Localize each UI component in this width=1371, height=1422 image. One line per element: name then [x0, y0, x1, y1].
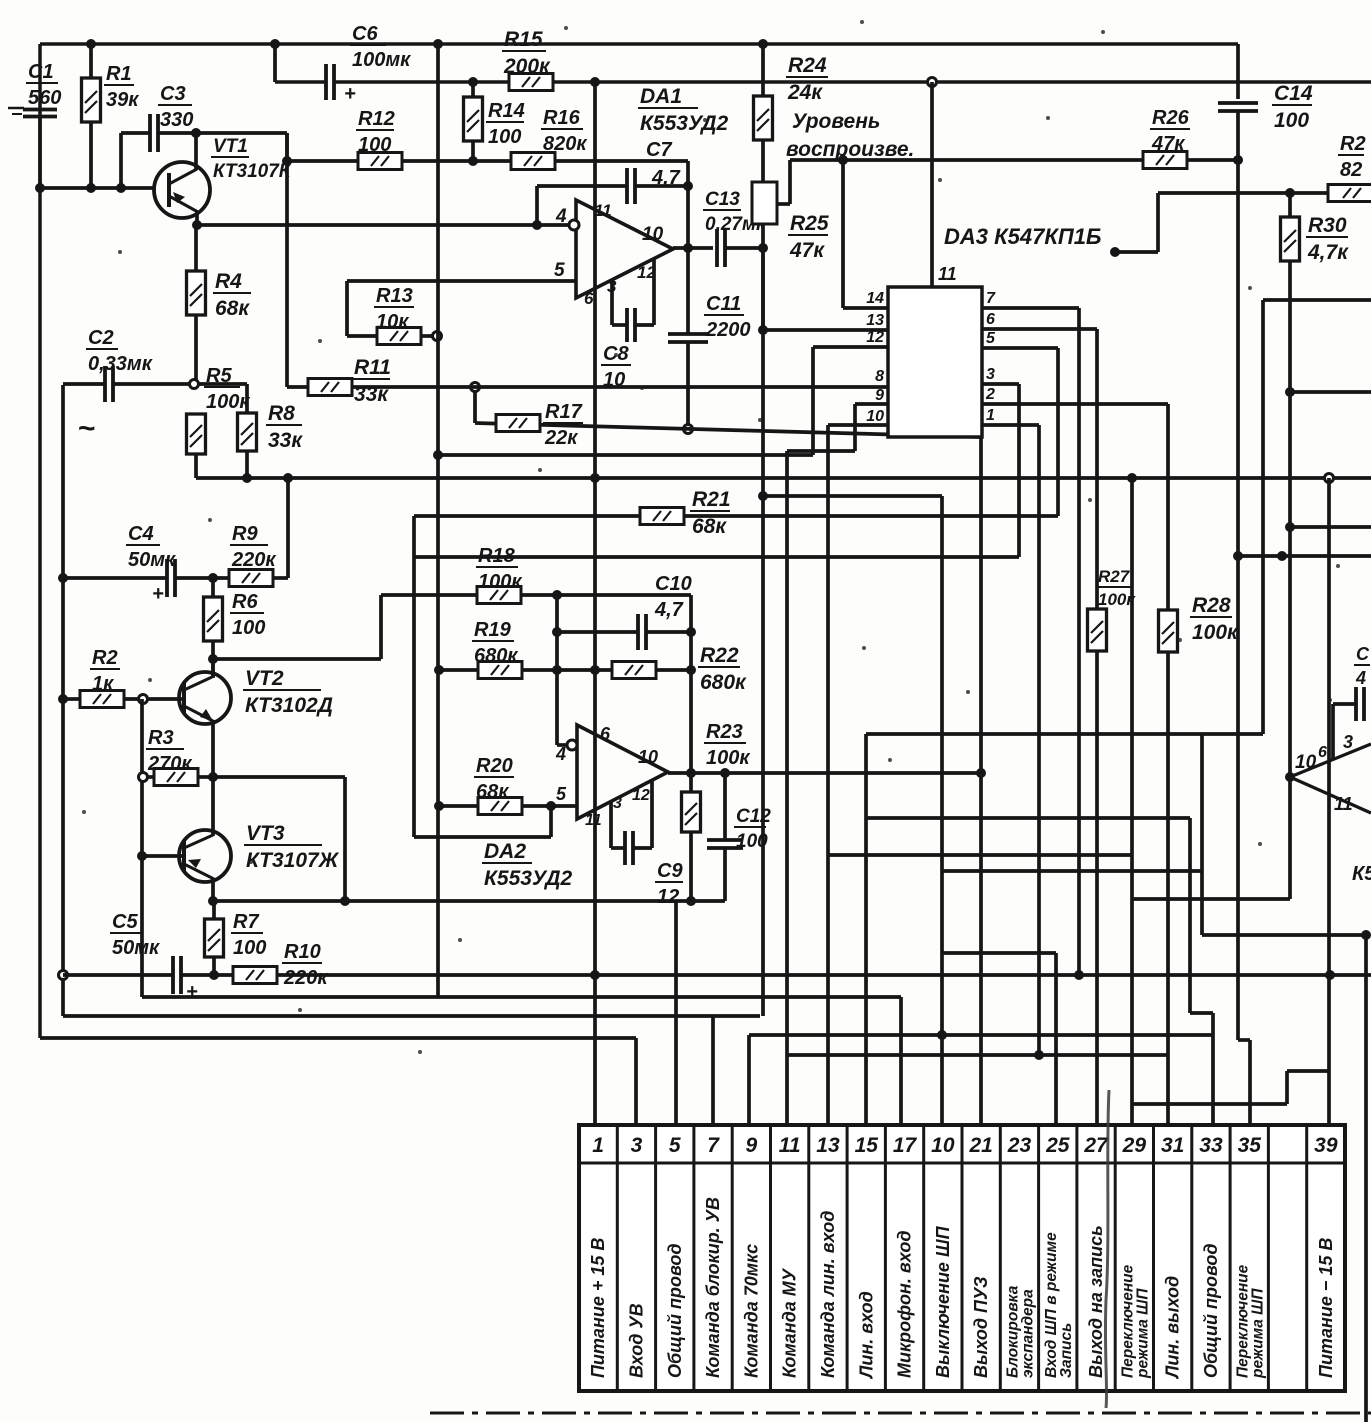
node junction R14 top [468, 77, 478, 87]
wire y659 link [213, 657, 381, 661]
wire x1056 col25 drop [1054, 953, 1058, 1125]
pin 12 label DA1 [637, 263, 656, 282]
label R8 33к [266, 402, 303, 452]
svg-text:КТ3107К: КТ3107К [213, 161, 292, 182]
label C7 4,7 [643, 139, 681, 189]
wire x1202 drop [1200, 734, 1204, 935]
svg-text:100к: 100к [478, 571, 522, 593]
svg-text:11: 11 [1334, 794, 1353, 814]
pin 10 label DA2 [638, 747, 658, 767]
capacitor C1 [8, 108, 57, 117]
svg-text:5: 5 [986, 330, 996, 347]
label R6 100 [230, 591, 265, 639]
svg-text:4: 4 [555, 744, 566, 764]
wire x942 bus [940, 496, 944, 1125]
capacitor C11 [668, 248, 708, 429]
node y556 mid [1277, 551, 1287, 561]
pin 5 label DA1 [554, 260, 565, 281]
svg-text:11: 11 [938, 264, 957, 284]
pin 3 label DA4 [1343, 732, 1353, 752]
wire y557 line [414, 555, 1019, 559]
node y670 main bus [590, 665, 600, 675]
label C2 0,33мк [86, 327, 153, 375]
pin 7 label DA3 [986, 290, 996, 307]
resistor R6 [204, 578, 223, 676]
svg-text:100к: 100к [706, 747, 750, 769]
svg-text:R22: R22 [700, 644, 739, 667]
wire R5/R8 bottom line y478 [196, 476, 1371, 480]
svg-text:5: 5 [669, 1134, 681, 1157]
resistor R27 [1088, 609, 1107, 1125]
label VT2 [243, 667, 333, 717]
wire R9 riser [286, 478, 290, 578]
svg-text:экспандера: экспандера [1019, 1289, 1036, 1378]
svg-text:R4: R4 [215, 270, 242, 293]
node C5 left (circle) [59, 971, 68, 980]
svg-text:3: 3 [613, 795, 622, 812]
svg-text:+: + [152, 583, 164, 605]
svg-text:+: + [186, 981, 198, 1003]
wire top +supply rail [40, 42, 1238, 46]
wire pin9 stub [787, 404, 888, 451]
svg-text:10: 10 [931, 1134, 955, 1157]
wire R17 riser to R11 line [473, 387, 477, 423]
svg-text:29: 29 [1122, 1134, 1147, 1157]
pin 8 label DA3 [875, 368, 884, 385]
svg-text:100к: 100к [206, 391, 250, 413]
node R2 right (circle) [139, 695, 148, 704]
pin 10 label DA1 [642, 224, 664, 245]
svg-text:17: 17 [893, 1134, 918, 1157]
wire x866 col15 bus [864, 734, 868, 1125]
wire C1 to base node [38, 117, 42, 188]
label R18 100к [476, 545, 522, 593]
label R15 200к [502, 28, 551, 78]
pin 10 label DA4 [1295, 752, 1317, 773]
node VT3 base node [137, 851, 147, 861]
resistor R10 [233, 967, 277, 984]
node C7 line junction [683, 181, 693, 191]
label C12 100 [734, 806, 771, 852]
svg-text:12: 12 [632, 787, 650, 804]
svg-text:47к: 47к [1151, 133, 1185, 155]
pin 5 label DA2 [556, 784, 567, 804]
resistor R4 [187, 225, 206, 380]
wire pin3 drop [982, 384, 1019, 557]
label уровень воспроизв. [786, 110, 914, 161]
svg-text:9: 9 [746, 1134, 758, 1157]
wire VT3 base lead [142, 854, 184, 858]
wire pin7 drop [982, 308, 1079, 975]
svg-text:39к: 39к [106, 89, 139, 111]
svg-text:50мк: 50мк [128, 549, 176, 571]
resistor R20 [478, 798, 522, 815]
wire VT2 base lead [147, 697, 184, 701]
svg-text:47к: 47к [789, 239, 825, 262]
svg-text:Команда МУ: Команда МУ [780, 1267, 800, 1378]
node x557 C10 [552, 627, 562, 637]
svg-text:10: 10 [642, 224, 664, 245]
node feedback tap on pin4 line [532, 220, 542, 230]
svg-text:R2: R2 [1340, 133, 1366, 155]
svg-text:7: 7 [707, 1134, 720, 1157]
node y478 main bus [590, 473, 600, 483]
node pin13 bus tap [758, 325, 768, 335]
svg-text:Вход УВ: Вход УВ [626, 1303, 646, 1378]
wire y1013 link [1190, 1011, 1213, 1015]
svg-text:+: + [344, 83, 356, 105]
node output junction [683, 243, 693, 253]
label DA2 [482, 840, 573, 890]
wire x691 bus [689, 595, 693, 773]
svg-text:5: 5 [556, 784, 567, 804]
svg-text:13: 13 [816, 1134, 840, 1157]
svg-text:К5: К5 [1352, 863, 1371, 885]
wire x557 bus [555, 595, 559, 745]
capacitor C14 [1218, 103, 1258, 111]
wire x287 collector bus [285, 133, 289, 387]
label C11 2200 [704, 293, 751, 341]
svg-text:Запись: Запись [1058, 1323, 1075, 1378]
node R3 right [208, 772, 218, 782]
node R7 bottom [209, 970, 219, 980]
switch IC DA3 К547КП1Б [888, 287, 982, 437]
wire x676 col5 drop [674, 901, 678, 1125]
svg-text:воспроизве.: воспроизве. [786, 138, 914, 161]
node output C12 tap [720, 768, 730, 778]
svg-text:Лин. вход: Лин. вход [856, 1291, 876, 1380]
wire y871 link [942, 869, 1202, 873]
label R16 820к [541, 107, 587, 155]
wire bus x787 [785, 451, 789, 1125]
pin 12 label DA3 [866, 329, 884, 346]
svg-text:R8: R8 [268, 402, 295, 425]
node R6 top [208, 573, 218, 583]
svg-text:Микрофон. вход: Микрофон. вход [895, 1231, 915, 1378]
wire C13 right lead [725, 246, 763, 250]
wire pin12 stub [813, 347, 888, 455]
svg-text:10к: 10к [376, 311, 409, 333]
node R13 right junction (circle) [433, 332, 442, 341]
resistor R23 [682, 773, 701, 901]
svg-text:С9: С9 [657, 860, 683, 882]
wire pin14 stub [843, 160, 888, 308]
wire R10 line y975 [63, 973, 1371, 977]
svg-text:Выход ПУЗ: Выход ПУЗ [971, 1276, 991, 1378]
svg-text:С3: С3 [160, 83, 186, 105]
wire y556 stub to edge [1238, 554, 1371, 558]
node C11 to R17 junction (circle) [684, 425, 693, 434]
wire y392 stub to edge [1290, 390, 1371, 394]
node x557 top on R18 line [552, 590, 562, 600]
wire y455 line [438, 453, 813, 457]
label C1 560 [26, 61, 61, 109]
svg-text:С6: С6 [352, 23, 378, 45]
svg-text:50мк: 50мк [112, 937, 160, 959]
label R2 1к [90, 647, 120, 695]
capacitor C8 between pins 3 and 12 [612, 259, 654, 342]
wire C4/R9 line [63, 576, 288, 580]
label C16 (cut) [1354, 644, 1370, 688]
svg-text:R25: R25 [790, 212, 829, 235]
resistor R22 [612, 662, 656, 679]
wire x345 drop [343, 777, 347, 901]
wire R20 line [439, 804, 577, 808]
svg-text:С7: С7 [646, 139, 672, 161]
node y935 right [1361, 930, 1371, 940]
pin 11 label DA3 [938, 264, 957, 284]
node output R23 tap [686, 768, 696, 778]
svg-text:С12: С12 [736, 806, 771, 827]
capacitor C13 [717, 229, 725, 267]
node R17/R11 junction (circle) [471, 383, 480, 392]
wire y899 link [1132, 897, 1290, 901]
svg-text:8: 8 [875, 368, 884, 385]
node y1055 pin1 end [1034, 1050, 1044, 1060]
svg-text:К553УД2: К553УД2 [484, 867, 573, 890]
svg-text:Команда блокир. УВ: Команда блокир. УВ [703, 1197, 723, 1378]
node R2 left [58, 694, 68, 704]
svg-text:режима ШП: режима ШП [1249, 1288, 1266, 1379]
svg-text:3: 3 [631, 1134, 643, 1157]
svg-text:6: 6 [1318, 744, 1327, 761]
wire R18 riser [379, 595, 383, 659]
svg-text:23: 23 [1007, 1134, 1032, 1157]
label R28 100к [1190, 594, 1239, 644]
node x691 C10 [686, 627, 696, 637]
svg-text:С: С [1356, 644, 1370, 664]
label VT3 [244, 822, 340, 872]
node junction main bus top [590, 77, 600, 87]
wire R13 leads [347, 334, 437, 338]
svg-text:82: 82 [1340, 159, 1362, 181]
node R26 right on C14 bus [1233, 155, 1243, 165]
wire R21 line [414, 514, 1058, 518]
svg-text:100: 100 [736, 831, 768, 852]
node base rail dot R1 [86, 183, 96, 193]
svg-text:режима ШП: режима ШП [1134, 1288, 1151, 1379]
svg-text:R26: R26 [1152, 107, 1190, 129]
resistor R21 [640, 508, 684, 525]
svg-text:100к: 100к [1192, 621, 1239, 644]
svg-text:Выход на запись: Выход на запись [1086, 1225, 1106, 1378]
wire pin6 drop [982, 329, 1097, 610]
resistor R2 [63, 691, 142, 708]
wire pin2 drop [982, 404, 1168, 612]
wire DA4 pin6 compensation stub [1333, 704, 1356, 760]
node R30 top junction [1285, 188, 1295, 198]
node R20 right pin5 [546, 801, 556, 811]
pin 11 label DA2 [585, 812, 602, 829]
node DA3 wire left end [1110, 247, 1120, 257]
wire x713 col7 drop [711, 1016, 715, 1125]
node R30 bus y527 [1285, 522, 1295, 532]
wire bus x438 [436, 44, 440, 997]
resistor R26 [1143, 152, 1187, 169]
wire R8 top lead [198, 384, 247, 413]
wire y1016 line [63, 1014, 760, 1018]
pin 12 label DA2 [632, 787, 650, 804]
wire C3 branch vertical [119, 133, 123, 188]
connector signal names (rotated) [588, 1197, 1336, 1380]
pin 14 label DA3 [866, 290, 884, 307]
resistor R16 [511, 153, 555, 170]
node base rail dot C3 branch [116, 183, 126, 193]
connector pin numbers row [592, 1134, 1338, 1157]
node base rail dot left [35, 183, 45, 193]
resistor R11 [308, 379, 352, 396]
node VT1 collector tap [191, 128, 201, 138]
svg-text:330: 330 [160, 109, 193, 131]
label R26 47к [1150, 107, 1190, 155]
wire DA3 pin11 [930, 82, 934, 287]
svg-text:VT3: VT3 [246, 822, 285, 845]
wire pin1 drop [982, 425, 1039, 1055]
svg-text:68к: 68к [476, 781, 509, 803]
svg-text:4: 4 [1355, 668, 1366, 688]
wire R18 line [381, 587, 691, 604]
pin 6 label DA2 [600, 724, 611, 744]
wire second supply rail y82 (right segment) [334, 80, 1371, 84]
svg-text:R11: R11 [354, 356, 391, 379]
label R20 68к [474, 755, 514, 803]
label R5 100к [204, 365, 250, 413]
wire x551 riser to pin5 [549, 806, 553, 837]
svg-text:1: 1 [986, 407, 995, 424]
wire y901 line [213, 899, 725, 903]
svg-text:КТ3107Ж: КТ3107Ж [246, 849, 340, 872]
svg-text:4,7к: 4,7к [1307, 241, 1349, 264]
svg-text:33к: 33к [268, 429, 303, 452]
svg-text:Питание + 15 В: Питание + 15 В [588, 1238, 608, 1378]
svg-text:R9: R9 [232, 523, 258, 545]
svg-text:100мк: 100мк [352, 49, 411, 71]
svg-text:R6: R6 [232, 591, 258, 613]
wire playback level line [790, 158, 1238, 162]
wire bus x763 (R25/C13 net) [761, 248, 765, 1016]
svg-text:5: 5 [554, 260, 565, 281]
node x691 R22 [686, 665, 696, 675]
node y975 x1079 [1074, 970, 1084, 980]
wire x1263 riser [1261, 300, 1265, 734]
node R5 top (circle) [190, 380, 199, 389]
svg-text:R18: R18 [478, 545, 516, 567]
svg-text:DA2: DA2 [484, 840, 526, 863]
wire x981 col21 bus [979, 437, 983, 1125]
capacitor C10 [557, 614, 691, 650]
wire y997 line [142, 995, 901, 999]
node R16 left junction [468, 156, 478, 166]
svg-text:14: 14 [866, 290, 884, 307]
pin 4 label DA2 [555, 744, 566, 764]
label R17 22к [543, 401, 583, 449]
resistor R13 [377, 328, 421, 345]
transistor VT1 KT3107K (PNP) [154, 133, 210, 225]
label R22 680к [698, 644, 747, 694]
svg-text:10: 10 [866, 408, 884, 425]
svg-text:С1: С1 [28, 61, 54, 83]
svg-text:R16: R16 [543, 107, 581, 129]
label R7 100 [231, 911, 266, 959]
wire base bias bus x142 [140, 699, 144, 997]
wire C7 right lead [635, 184, 688, 188]
wire pin13 stub [763, 328, 888, 332]
label R4 68к [213, 270, 251, 320]
node y478 R8 bottom [242, 473, 252, 483]
svg-text:R13: R13 [376, 285, 413, 307]
node VT3 emitter node [208, 896, 218, 906]
svg-text:820к: 820к [543, 133, 587, 155]
capacitor C12 [707, 773, 743, 901]
wire y1035 link [749, 1033, 1213, 1037]
svg-text:7: 7 [986, 290, 996, 307]
svg-text:R7: R7 [233, 911, 259, 933]
wire C7/R16 vertical to output [686, 161, 690, 248]
wire C2 line [63, 382, 190, 386]
svg-text:0,33мк: 0,33мк [88, 353, 153, 375]
potentiometer R25 [752, 182, 777, 330]
node x942 y1035 junction [937, 1030, 947, 1040]
wire pin5 drop [982, 348, 1058, 516]
wire x828 col13 bus [826, 425, 830, 1125]
wire main bus x595 (+15V) [593, 82, 597, 1125]
node y901 R23 [686, 896, 696, 906]
op-amp DA2 К553УД2 [577, 725, 668, 819]
node y901 x345 [340, 896, 350, 906]
wire y818 link [866, 816, 1190, 820]
wire R11 line to DA3 pin8 [287, 385, 888, 389]
wire y734 link [866, 732, 1263, 736]
node y455 left end [433, 450, 443, 460]
wire R29 line [1158, 191, 1327, 195]
node R20 left [434, 801, 444, 811]
svg-text:4,7: 4,7 [654, 599, 684, 621]
wire C7 left lead [537, 184, 627, 188]
svg-text:680к: 680к [474, 645, 518, 667]
svg-text:С13: С13 [705, 189, 740, 210]
wire y1071 link [1287, 1069, 1329, 1073]
wire DA2 pin4 stub [557, 740, 577, 750]
pin 3 label DA3 [986, 366, 995, 383]
label R23 100к [704, 721, 750, 769]
pin 9 label DA3 [875, 387, 884, 404]
svg-text:10: 10 [1295, 752, 1317, 773]
resistor R17 [496, 415, 540, 432]
label R19 680к [472, 619, 518, 667]
svg-text:100: 100 [1274, 109, 1309, 132]
resistor R14 [464, 82, 483, 161]
svg-text:R20: R20 [476, 755, 513, 777]
node pin11 bus junction (circle) [928, 78, 937, 87]
node R12 line tap [282, 156, 292, 166]
node junction R24 top on top rail [758, 39, 768, 49]
label R21 68к [690, 488, 731, 538]
wire top rail corner down [1236, 44, 1240, 99]
svg-text:R21: R21 [692, 488, 731, 511]
wire R25 wiper [777, 160, 790, 204]
wire R12 line [287, 159, 511, 163]
svg-text:13: 13 [866, 312, 884, 329]
node y975 main bus [590, 970, 600, 980]
wire pin10 stub [828, 423, 888, 427]
connector table XS1 frame [579, 1125, 1345, 1391]
node x557 R19 [552, 665, 562, 675]
label C4 50мк [126, 523, 176, 571]
capacitor C4 [152, 559, 175, 605]
label R25 47к [788, 212, 829, 262]
wire y777 link [213, 775, 345, 779]
pin 4 label DA1 [555, 206, 567, 227]
